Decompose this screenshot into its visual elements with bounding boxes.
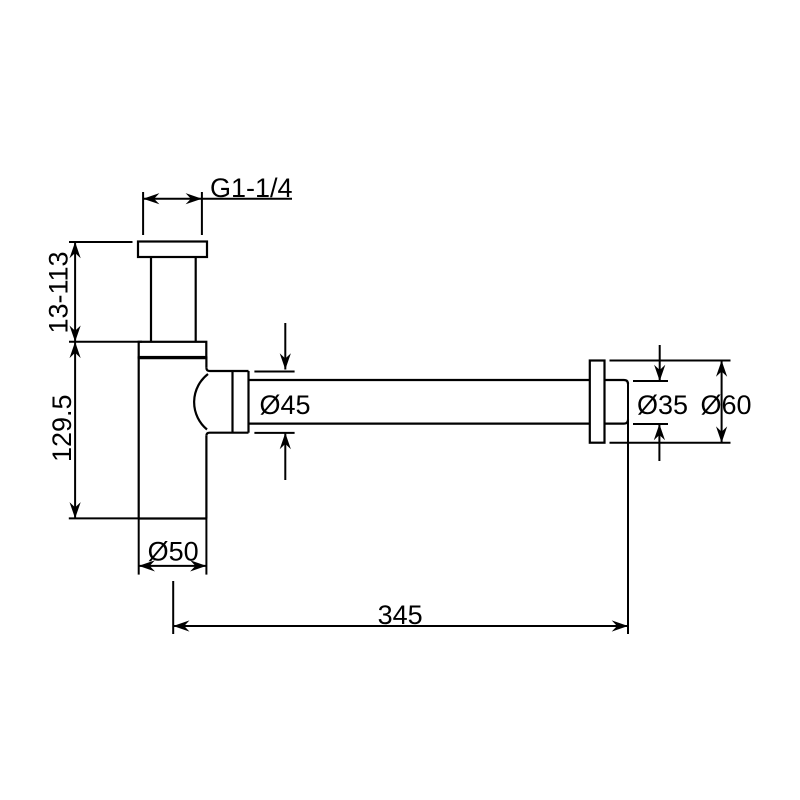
svg-text:Ø35: Ø35: [637, 390, 688, 420]
inlet tube right wall: [195, 257, 197, 342]
13-113 bottom arrow: [70, 326, 81, 342]
129.5 dimension line: [74, 342, 76, 519]
pipe stub top: [605, 380, 629, 384]
Ø45 top arrow line: [284, 323, 286, 370]
G1-1/4 right arrow: [186, 193, 202, 204]
Ø45 top arrowhead: [280, 353, 291, 369]
Ø60 bottom arrowhead: [716, 426, 727, 442]
345 right arrow: [612, 620, 628, 631]
shared middle extension: [69, 341, 142, 343]
inlet tube left wall: [150, 257, 152, 342]
Ø45 top extension: [254, 371, 294, 373]
Ø35 bottom arrowhead: [654, 424, 665, 440]
Ø45 bottom arrow line: [284, 433, 286, 480]
Ø35 top arrow line: [659, 345, 661, 381]
trap body right wall lower: [205, 436, 207, 519]
345 dimension line: [173, 625, 628, 627]
Ø50 right arrow: [190, 560, 206, 571]
outlet bottom edge: [206, 433, 248, 436]
svg-text:129.5: 129.5: [47, 394, 77, 462]
trap body left wall: [138, 357, 140, 519]
13-113 dimension line: [74, 242, 76, 342]
345 left extension: [172, 581, 174, 634]
internal dome arc: [194, 374, 208, 430]
G1-1/4 leader line: [202, 198, 292, 200]
345 left arrow: [173, 620, 189, 631]
trap body right wall upper: [205, 357, 207, 368]
body top flange: [139, 342, 207, 357]
svg-text:345: 345: [378, 600, 423, 630]
Ø35 bottom arrow line: [658, 424, 660, 461]
trap body bottom: [139, 517, 207, 519]
G1-1/4 left arrow: [143, 193, 159, 204]
G1-1/4 right extension: [201, 192, 203, 235]
inlet top flange: [138, 242, 207, 258]
pipe stub end and 345 right extension: [627, 383, 629, 634]
outlet nut left edge: [231, 371, 233, 433]
129.5 bottom arrow: [70, 502, 81, 518]
Ø60 bottom extension: [610, 442, 731, 444]
Ø35 bottom extension: [633, 423, 668, 425]
13-113 top arrow: [70, 242, 81, 258]
wall flange: [590, 361, 605, 443]
Ø60 top extension: [610, 360, 731, 362]
Ø45 bottom arrowhead: [280, 433, 291, 449]
Ø60 top arrowhead: [716, 361, 727, 377]
outlet pipe top: [249, 379, 590, 381]
13-113 top extension: [69, 241, 133, 243]
svg-text:Ø60: Ø60: [701, 390, 752, 420]
svg-text:13-113: 13-113: [44, 251, 74, 333]
pipe stub bottom: [605, 420, 629, 424]
outlet nut right edge: [247, 371, 249, 433]
129.5 bottom extension: [69, 517, 139, 519]
G1-1/4 left extension: [142, 192, 144, 235]
outlet pipe bottom: [249, 423, 590, 425]
svg-text:Ø50: Ø50: [148, 537, 199, 567]
Ø45 bottom extension: [254, 432, 294, 434]
outlet top edge: [206, 368, 248, 371]
svg-text:Ø45: Ø45: [260, 390, 311, 420]
Ø50 left arrow: [139, 560, 155, 571]
Ø60 dimension line: [721, 361, 723, 443]
Ø50 left extension: [138, 519, 140, 575]
G1-1/4 dimension line: [143, 198, 202, 200]
Ø35 top extension: [633, 380, 668, 382]
Ø35 top arrowhead: [654, 365, 665, 381]
129.5 top arrow: [70, 342, 81, 358]
Ø50 dimension line: [139, 565, 207, 567]
svg-text:G1-1/4: G1-1/4: [210, 173, 293, 203]
Ø50 right extension: [205, 519, 207, 575]
body flange joint thick line: [138, 356, 208, 359]
